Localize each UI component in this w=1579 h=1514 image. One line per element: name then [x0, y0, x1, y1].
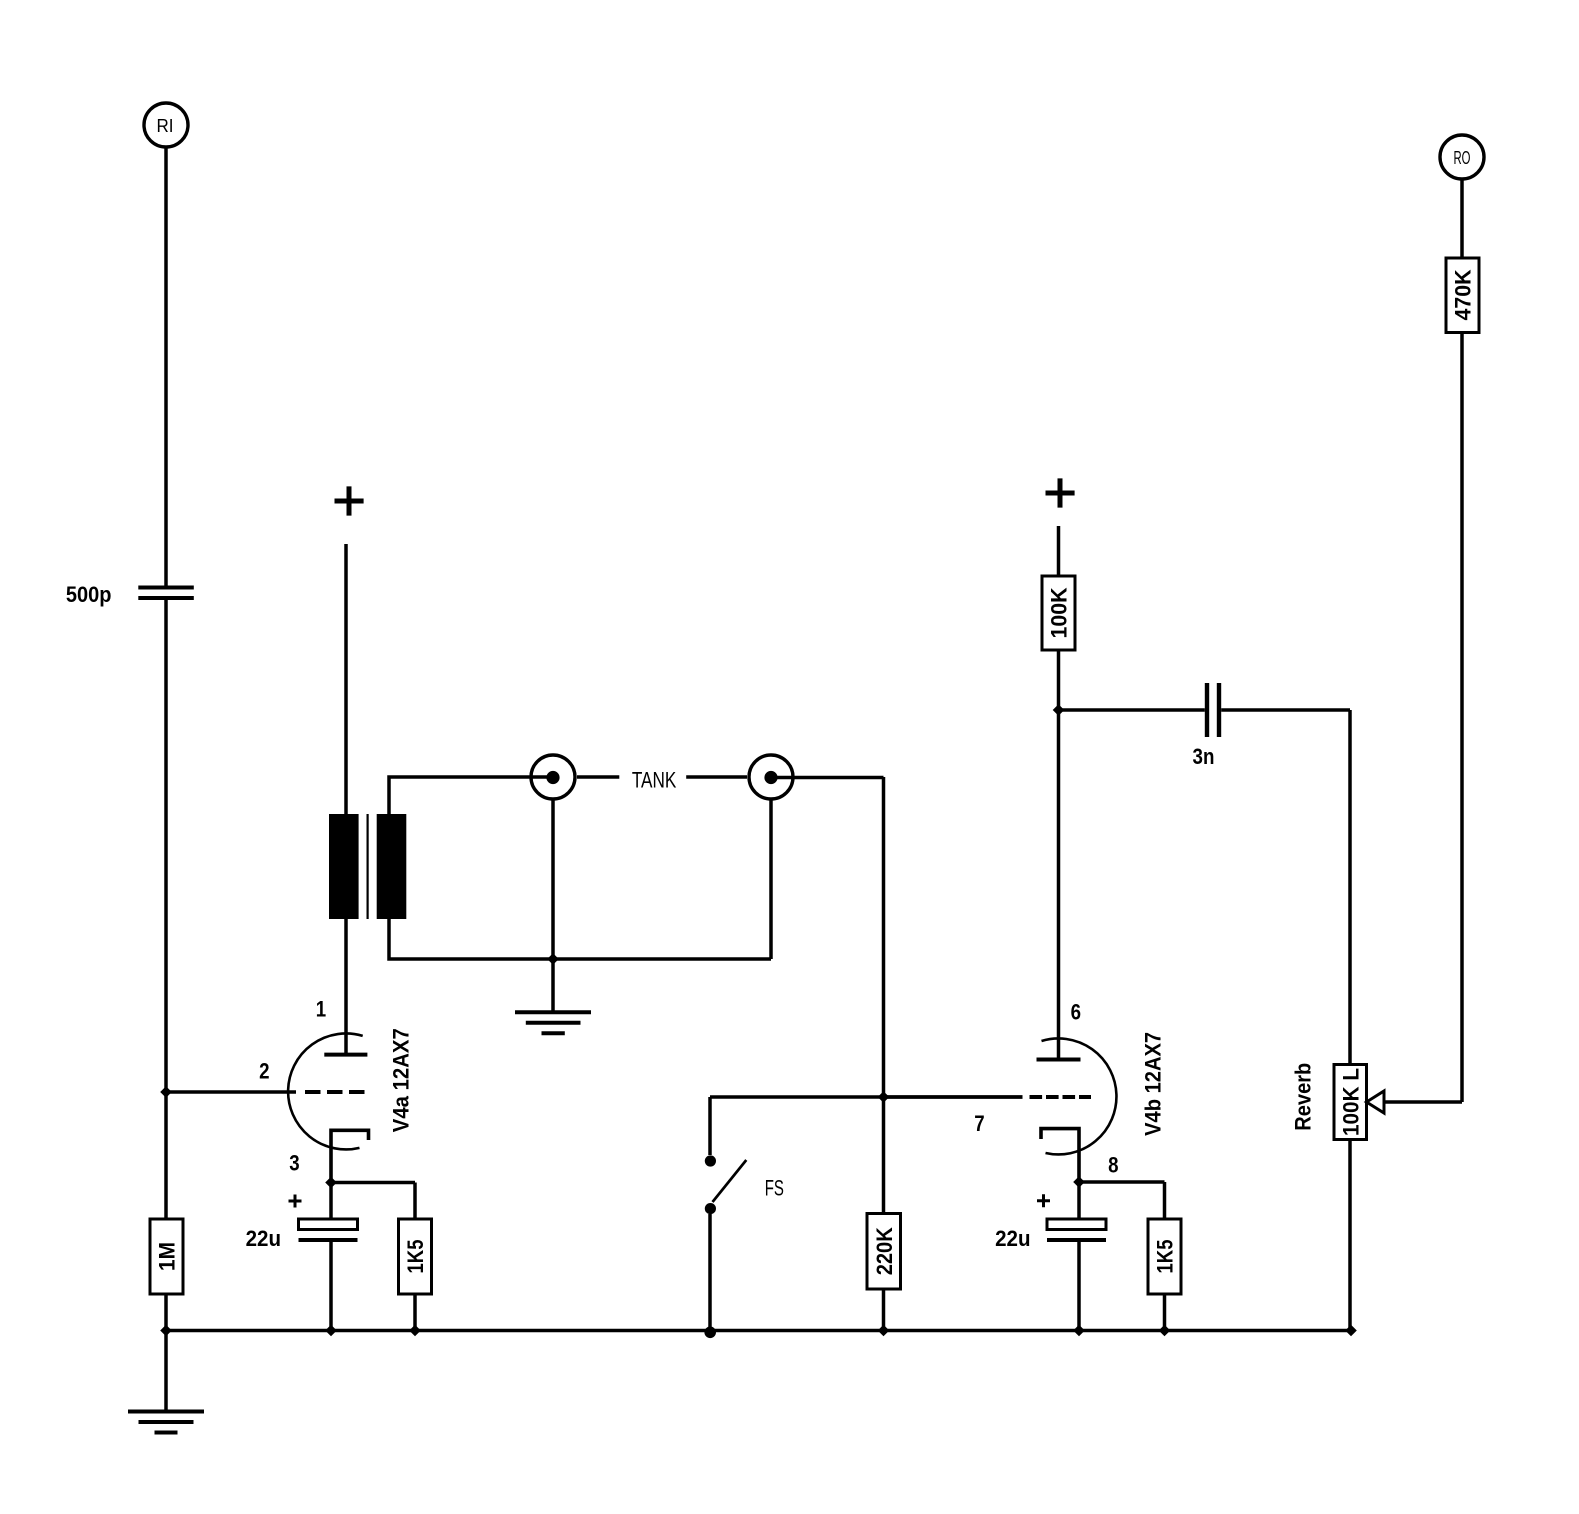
svg-text:22u: 22u — [246, 1226, 281, 1251]
svg-text:100K L: 100K L — [1338, 1068, 1363, 1136]
svg-text:V4a 12AX7: V4a 12AX7 — [389, 1028, 414, 1132]
svg-text:6: 6 — [1071, 1000, 1081, 1025]
svg-text:RI: RI — [157, 116, 174, 136]
svg-text:7: 7 — [974, 1111, 984, 1136]
svg-text:2: 2 — [259, 1058, 269, 1083]
svg-text:Reverb: Reverb — [1291, 1063, 1316, 1131]
svg-text:1M: 1M — [155, 1242, 180, 1271]
svg-text:22u: 22u — [995, 1226, 1030, 1251]
svg-text:470K: 470K — [1451, 269, 1476, 320]
svg-text:3: 3 — [289, 1151, 299, 1176]
svg-text:1K5: 1K5 — [403, 1240, 428, 1274]
svg-text:500p: 500p — [66, 582, 112, 607]
svg-text:RO: RO — [1454, 148, 1471, 168]
svg-text:FS: FS — [765, 1176, 784, 1201]
svg-text:220K: 220K — [872, 1227, 897, 1275]
svg-text:100K: 100K — [1047, 587, 1072, 638]
svg-text:TANK: TANK — [632, 767, 677, 792]
svg-text:1: 1 — [316, 996, 326, 1021]
svg-text:3n: 3n — [1193, 744, 1215, 769]
svg-text:V4b 12AX7: V4b 12AX7 — [1141, 1032, 1166, 1136]
svg-text:8: 8 — [1108, 1153, 1118, 1178]
svg-text:1K5: 1K5 — [1153, 1240, 1178, 1274]
